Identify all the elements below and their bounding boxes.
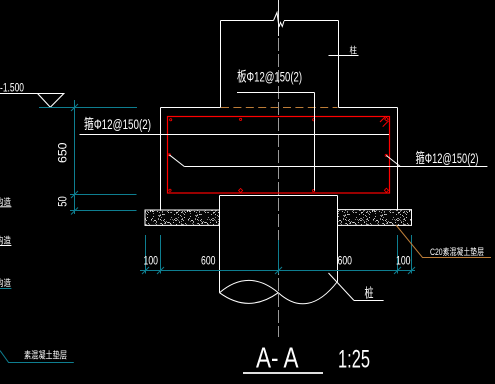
pile cap left edge	[160, 108, 162, 211]
svg-text:C20素混凝土垫层: C20素混凝土垫层	[430, 246, 484, 257]
cushion leader (orange)	[396, 225, 491, 258]
svg-text:1:25: 1:25	[338, 346, 370, 374]
pile right edge	[337, 196, 339, 282]
svg-text:600: 600	[338, 254, 353, 268]
svg-text:-1.500: -1.500	[0, 81, 24, 95]
pile cap top edge	[161, 107, 221, 109]
column label tick	[329, 55, 359, 57]
stirrup hook slashes top-right	[380, 116, 386, 122]
svg-text:构造: 构造	[0, 235, 11, 246]
left dim: top extension	[39, 107, 137, 109]
pile cap right edge	[397, 108, 399, 210]
pile cap bottom edge	[220, 195, 338, 197]
rebar dots top	[170, 119, 172, 121]
svg-text:650: 650	[58, 143, 70, 164]
cushion layer left	[145, 210, 220, 225]
left dim extensions	[70, 194, 137, 196]
svg-text:柱: 柱	[350, 45, 358, 56]
left dim ticks	[71, 104, 78, 111]
svg-text:A- A: A- A	[256, 343, 299, 375]
side bar leader	[169, 155, 184, 167]
stirrup cage R box	[168, 117, 390, 194]
cushion layer right	[338, 210, 412, 226]
plain concrete cushion label bottom-left	[0, 351, 74, 363]
bottom dim ticks	[142, 267, 149, 274]
rebar dots middle	[168, 154, 170, 156]
svg-text:100: 100	[396, 254, 411, 268]
svg-text:桩: 桩	[365, 286, 374, 301]
column top break line	[221, 20, 274, 22]
svg-text:50: 50	[58, 196, 70, 207]
title underline	[243, 372, 323, 374]
break zigzag	[274, 13, 285, 28]
bottom dim extensions	[145, 235, 147, 274]
svg-text:箍Φ12@150(2): 箍Φ12@150(2)	[416, 150, 479, 166]
pile label leader	[329, 273, 355, 301]
svg-text:构造: 构造	[0, 277, 11, 288]
svg-text:板Φ12@150(2): 板Φ12@150(2)	[237, 69, 302, 85]
svg-text:600: 600	[201, 254, 216, 268]
rebar dots bottom	[169, 189, 171, 191]
left label leader	[80, 134, 390, 136]
hidden slab line (dashed orange)	[221, 107, 338, 109]
svg-text:构造: 构造	[0, 196, 11, 207]
left dim line	[74, 100, 76, 214]
pile break curves	[220, 280, 338, 303]
pile left edge	[219, 196, 221, 293]
top label leader	[237, 92, 315, 94]
centerline	[278, 0, 280, 36]
column left edge	[220, 21, 222, 108]
column right edge	[338, 21, 340, 108]
svg-text:箍Φ12@150(2): 箍Φ12@150(2)	[84, 116, 151, 132]
svg-text:素混凝土垫层: 素混凝土垫层	[24, 350, 67, 362]
bottom dim line	[140, 270, 415, 272]
svg-text:100: 100	[144, 254, 159, 268]
